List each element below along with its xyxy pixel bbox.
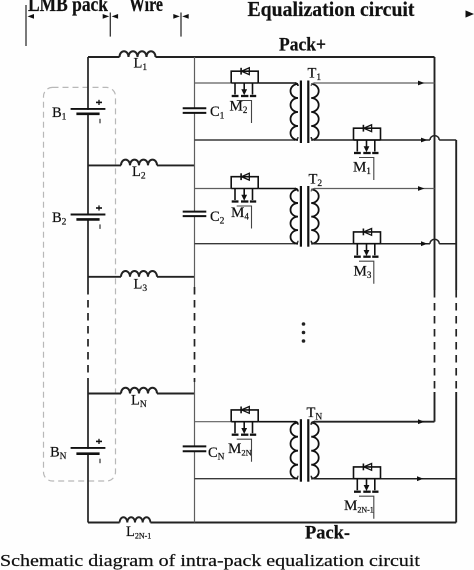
svg-text:Pack+: Pack+ [279,35,326,56]
svg-text:Pack-: Pack- [305,523,350,544]
svg-text:Schematic diagram of intra-pac: Schematic diagram of intra-pack equaliza… [0,551,420,570]
svg-text:Equalization circuit: Equalization circuit [248,0,416,21]
svg-text:LMB pack: LMB pack [28,0,108,16]
svg-text:Wire: Wire [129,0,163,16]
